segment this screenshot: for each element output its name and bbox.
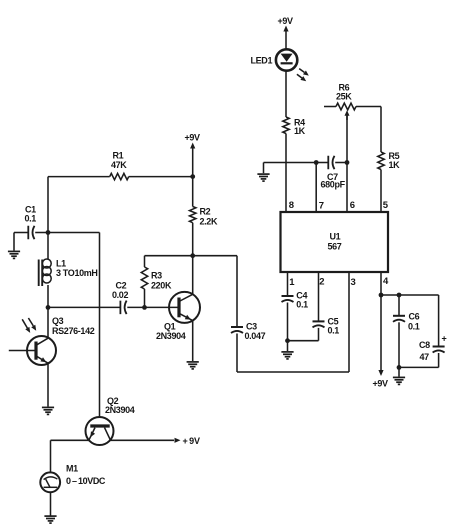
- svg-text:6: 6: [350, 200, 355, 211]
- svg-text:2.2K: 2.2K: [200, 217, 218, 227]
- svg-text:+9V: +9V: [373, 379, 389, 389]
- wire Q3 emitter to ground: [47, 363, 49, 407]
- wire bus to ground: [263, 163, 265, 174]
- power +9V arrow (pin 4): [373, 370, 389, 389]
- svg-text:+: +: [442, 334, 447, 344]
- svg-text:2N3904: 2N3904: [105, 405, 135, 415]
- resistor R4 1K: [283, 117, 306, 136]
- wire node to C2: [48, 306, 120, 308]
- resistor R1 47K: [48, 151, 193, 180]
- node C6/C8 ground junction: [397, 365, 402, 370]
- ground (C6/C8): [393, 377, 405, 384]
- wire Q1 emitter to ground: [192, 320, 194, 361]
- node L1/Q3 collector/C2 junction: [46, 305, 51, 310]
- svg-text:47: 47: [420, 352, 430, 362]
- wire ground bus to C7: [264, 162, 317, 164]
- wire Q3 collector: [47, 307, 49, 338]
- svg-text:C2: C2: [116, 281, 127, 291]
- wire pin4 node to C6/C8: [381, 295, 439, 347]
- svg-text:U1: U1: [330, 232, 341, 242]
- svg-text:C8: C8: [419, 340, 430, 350]
- node C4/C5 ground junction: [285, 338, 290, 343]
- wire C1 node right and down to Q2 base: [48, 233, 100, 418]
- svg-text:R1: R1: [113, 151, 124, 161]
- node C1/L1/R1 junction: [46, 230, 51, 235]
- svg-text:0.047: 0.047: [245, 331, 266, 341]
- svg-text:2N3904: 2N3904: [156, 331, 186, 341]
- svg-text:7: 7: [319, 201, 324, 212]
- wire R4 to IC pin 8: [285, 134, 287, 212]
- node C7/R6 wiper/pin6 junction: [345, 160, 350, 165]
- wire Q2 collector to +9V: [111, 439, 175, 441]
- node pin4/+9V junction: [379, 293, 384, 298]
- capacitor C5 0.1: [288, 317, 340, 341]
- svg-text:0.02: 0.02: [112, 290, 128, 300]
- ground (C4/C5): [281, 352, 293, 359]
- wire IC pin 4 down to +9V: [380, 272, 382, 371]
- wire C2 to R3/Q1 base node: [127, 306, 144, 308]
- svg-text:Q1: Q1: [164, 322, 176, 332]
- wire C3 bottom to IC pin 3: [237, 272, 349, 372]
- wire M1 to ground: [50, 492, 52, 515]
- potentiometer R6 25K: [324, 83, 381, 163]
- svg-text:25K: 25K: [336, 92, 352, 102]
- svg-text:2: 2: [319, 277, 324, 288]
- wire +9V down to R1/R2 node: [192, 149, 194, 177]
- resistor R2 2.2K: [190, 177, 218, 256]
- wire collector node to C3: [193, 255, 237, 257]
- svg-text:Q3: Q3: [52, 316, 64, 326]
- phototransistor Q3 RS276-142: [9, 316, 95, 365]
- ground (C1): [8, 251, 20, 258]
- ground (Q1 emitter): [187, 362, 199, 369]
- node C2/R3/Q1 base junction: [142, 305, 147, 310]
- wire IC pin 1 to C4: [287, 272, 289, 296]
- wire IC pin 6: [346, 163, 348, 212]
- resistor R5 1K: [378, 107, 400, 212]
- node R1/R2/+9V junction: [190, 174, 195, 179]
- ground (supply bus): [257, 174, 269, 181]
- LED LED1: [251, 49, 309, 81]
- wire R3 top to Q1 collector node: [145, 255, 193, 257]
- svg-text:LED1: LED1: [251, 56, 273, 66]
- inductor L1 3 TO 10mH: [39, 233, 98, 308]
- ground (M1): [44, 516, 56, 523]
- wire node to Q1 base: [145, 306, 180, 308]
- svg-text:R3: R3: [151, 271, 162, 281]
- svg-text:220K: 220K: [151, 281, 172, 291]
- power +9V arrow (R1/R2 node): [185, 133, 201, 149]
- wire +9V to LED1: [285, 32, 287, 50]
- svg-text:L1: L1: [56, 259, 66, 269]
- wire Q1 collector: [192, 256, 194, 295]
- svg-text:3 TO10mH: 3 TO10mH: [56, 268, 98, 278]
- transistor Q1 2N3904: [156, 292, 200, 341]
- wire IC pin 2 to C5: [318, 272, 320, 321]
- svg-text:1K: 1K: [389, 160, 401, 170]
- capacitor C1 0.1: [14, 205, 48, 240]
- svg-text:0.1: 0.1: [296, 300, 308, 310]
- wire node to ground: [398, 367, 400, 376]
- svg-text:8: 8: [289, 200, 294, 211]
- svg-text:C3: C3: [246, 322, 257, 332]
- svg-text:M1: M1: [66, 464, 78, 474]
- wire C1 to ground: [13, 233, 15, 251]
- svg-text:+9V: +9V: [278, 16, 294, 26]
- svg-text:R2: R2: [200, 207, 211, 217]
- node pin7/C7 junction: [314, 160, 319, 165]
- transistor Q2 2N3904: [86, 396, 135, 445]
- capacitor C2 0.02: [112, 281, 128, 315]
- svg-text:0.1: 0.1: [408, 322, 420, 332]
- wire node to ground: [287, 341, 289, 351]
- power +9V arrow (LED1): [278, 16, 294, 32]
- svg-text:RS276-142: RS276-142: [52, 326, 95, 336]
- wire IC pin 7: [315, 163, 317, 212]
- wire Q2 emitter to M1: [51, 440, 89, 472]
- wire R1 left end down to C1/L1 node: [47, 177, 49, 233]
- svg-text:47K: 47K: [111, 160, 127, 170]
- svg-text:567: 567: [328, 242, 342, 252]
- svg-text:0.1: 0.1: [25, 214, 37, 224]
- svg-text:+ 9V: + 9V: [183, 436, 200, 446]
- meter M1 0-10VDC: [40, 464, 106, 493]
- svg-text:0.1: 0.1: [328, 326, 340, 336]
- svg-text:+9V: +9V: [185, 133, 201, 143]
- resistor R3 220K: [141, 256, 172, 308]
- capacitor C3 0.047: [231, 256, 266, 372]
- capacitor C4 0.1: [282, 291, 309, 341]
- power +9V arrow (Q2 collector): [175, 436, 200, 446]
- wire LED1 to R4: [285, 71, 287, 117]
- svg-text:680pF: 680pF: [321, 180, 346, 190]
- capacitor C6 0.1: [393, 295, 420, 367]
- capacitor C8 47 electrolytic: [399, 334, 447, 368]
- svg-text:C6: C6: [409, 312, 420, 322]
- svg-text:3: 3: [351, 277, 356, 288]
- svg-text:1K: 1K: [294, 126, 306, 136]
- ground (Q3 emitter): [42, 407, 54, 414]
- IC U1 567: [281, 200, 390, 288]
- node C6 top junction: [397, 293, 402, 298]
- capacitor C7 680pF: [316, 156, 347, 190]
- svg-text:0 – 10VDC: 0 – 10VDC: [66, 476, 106, 486]
- node Q1 collector/R2/R3/C3 junction: [190, 253, 195, 258]
